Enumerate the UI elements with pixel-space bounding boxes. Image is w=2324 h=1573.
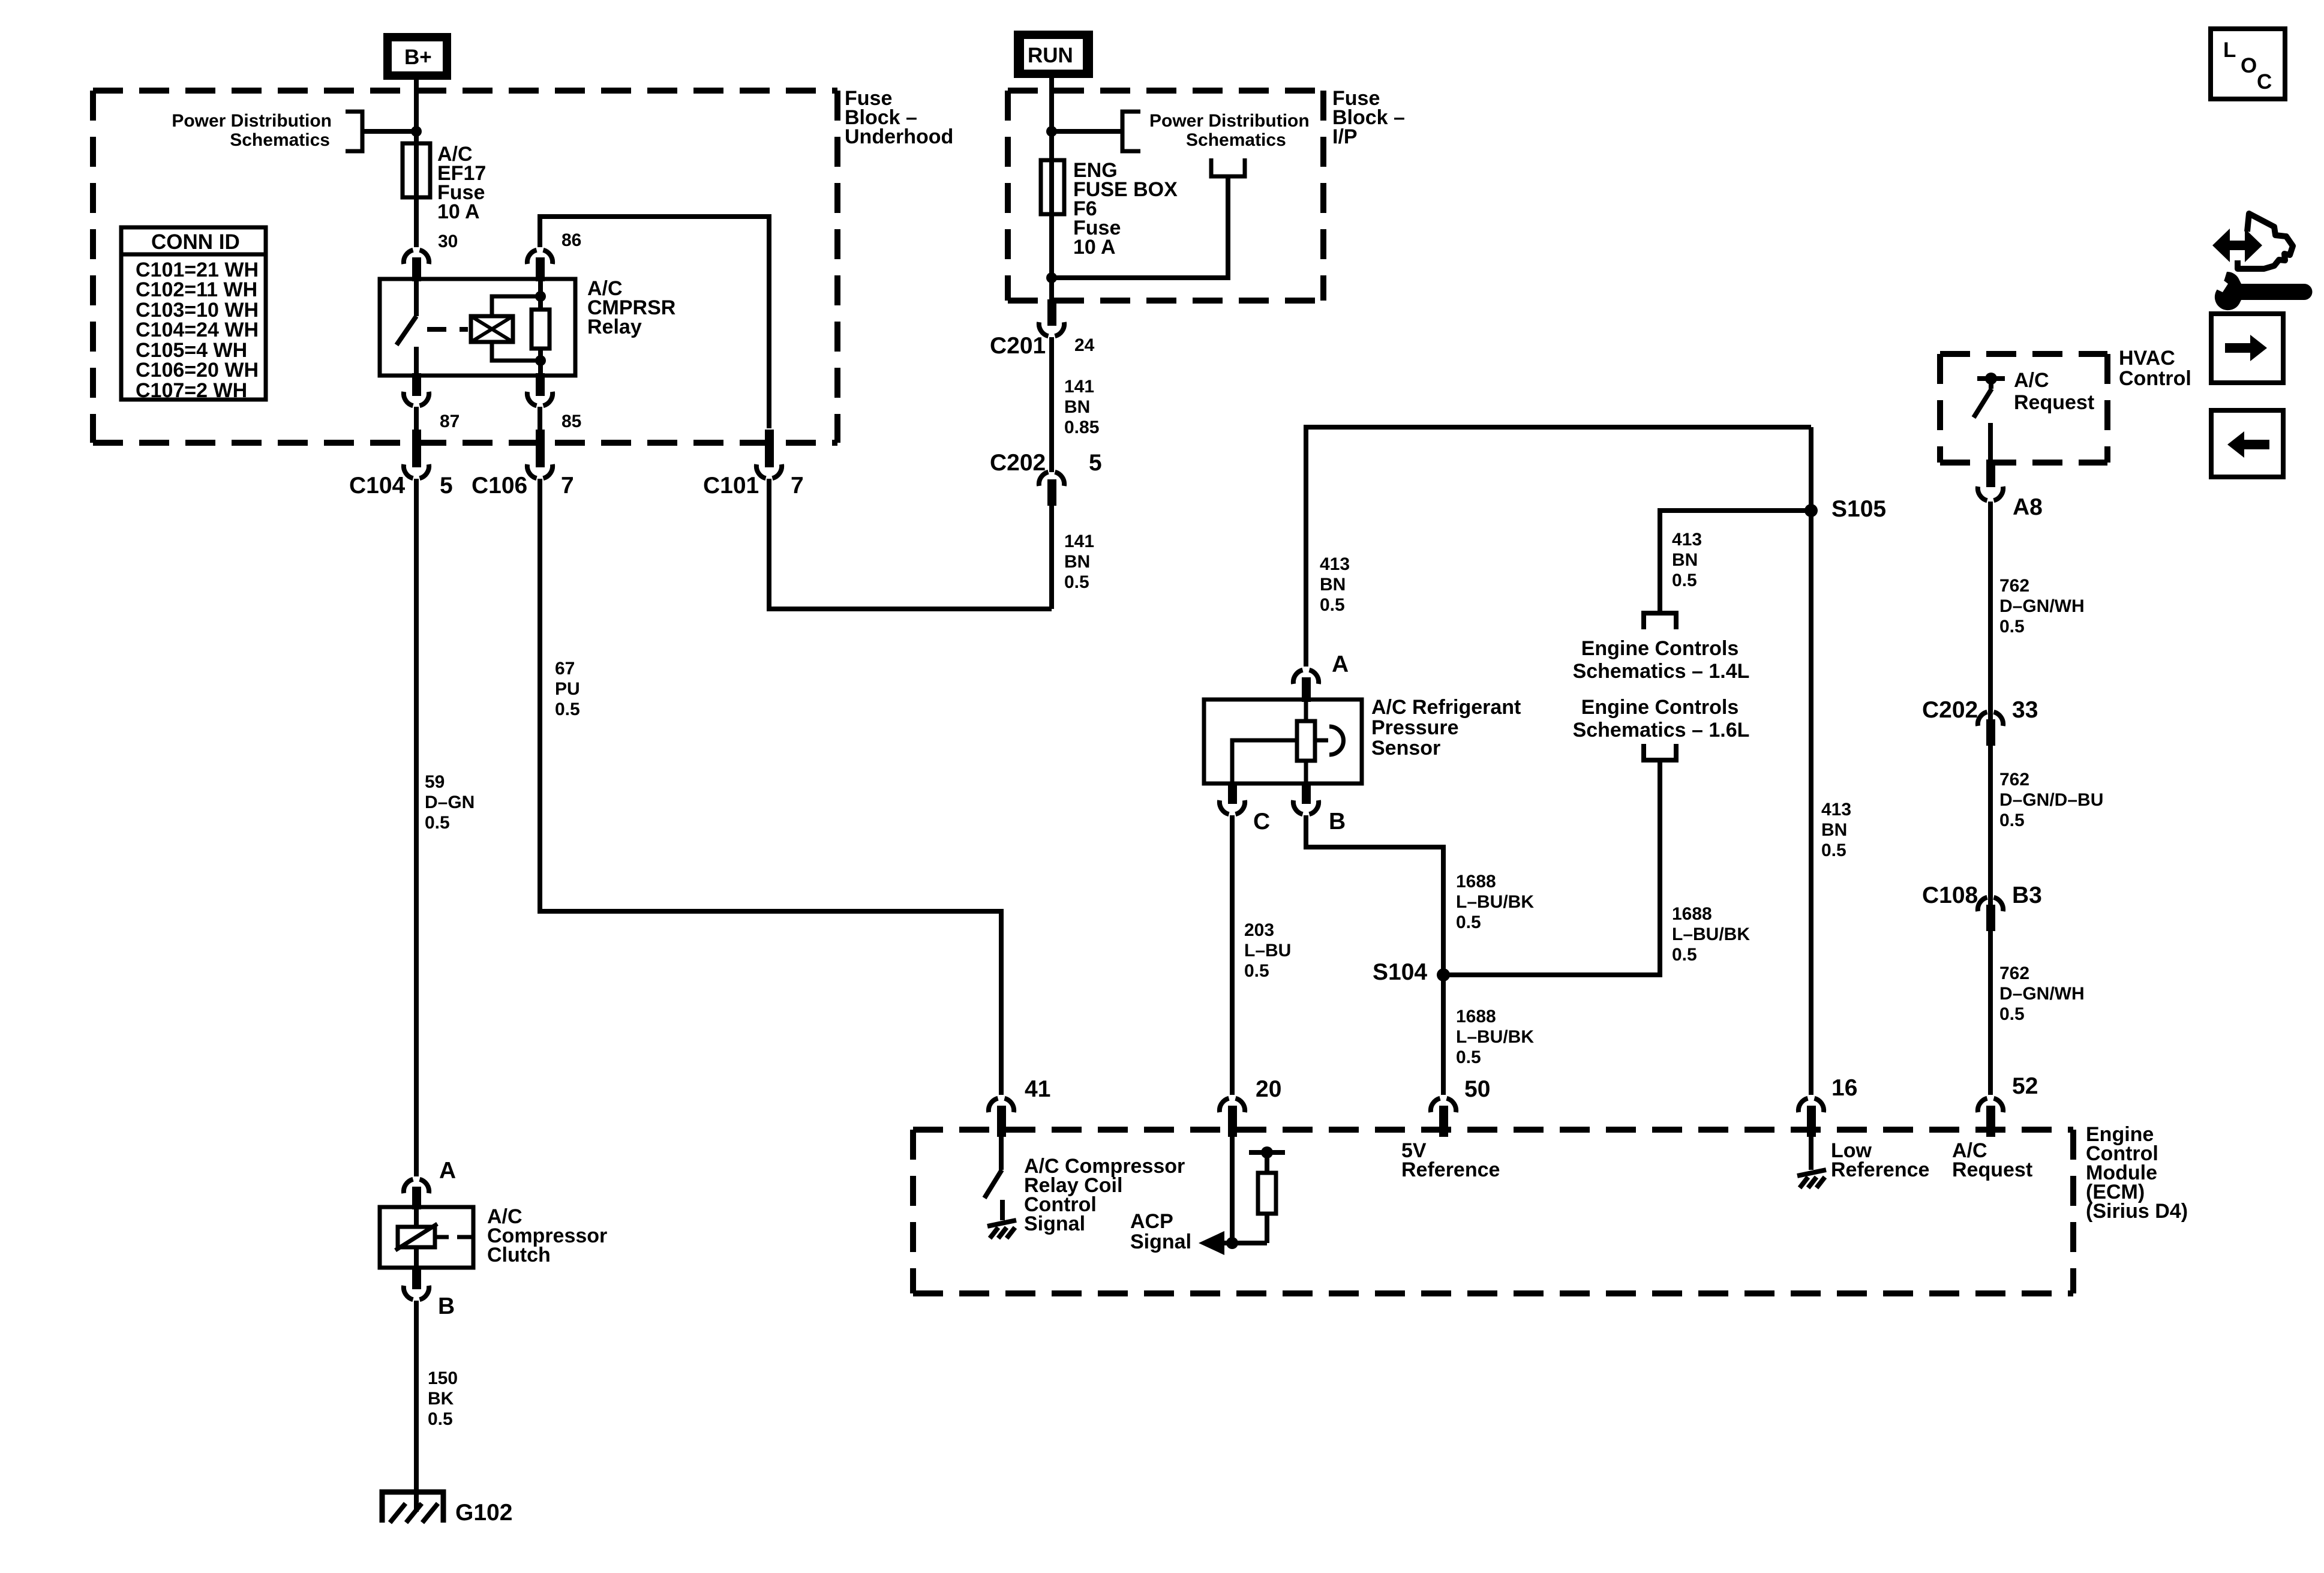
svg-text:D–GN/D–BU: D–GN/D–BU [1999,790,2103,810]
label wire 59 D-GN 0.5 [425,772,475,833]
wire 141 BN 0.5 [1049,506,1054,609]
svg-text:C: C [2257,70,2272,94]
svg-text:B: B [1329,809,1346,834]
connector sensor pin B [1293,782,1319,814]
svg-text:0.5: 0.5 [1456,1047,1481,1067]
wire 762 D-GN/WH 0.5 (C108 to ECM 52) [1988,931,1993,1095]
svg-text:0.5: 0.5 [1999,810,2025,830]
svg-text:10 A: 10 A [437,200,480,223]
relay suppression resistor [532,281,550,374]
svg-text:Signal: Signal [1024,1212,1085,1235]
connector pin 85 [527,373,553,406]
switch A/C compressor relay driver [984,1137,1002,1220]
bracket engine controls 1.6L [1644,744,1676,760]
sensor internal element [1232,700,1343,784]
svg-text:A/C: A/C [2014,369,2049,392]
A/C compressor clutch box [380,1207,473,1268]
label wire 141 BN 0.5 [1064,532,1094,592]
svg-text:1688: 1688 [1456,872,1496,891]
svg-text:0.5: 0.5 [555,700,580,719]
wire 141 BN 0.85 [1049,337,1054,472]
label power distribution schematics (underhood) [172,111,332,150]
svg-text:Schematics: Schematics [230,130,330,150]
label wire 413 BN 0.5 (sensor) [1320,554,1350,615]
svg-text:24: 24 [1074,335,1095,355]
svg-text:Schematics: Schematics [1186,130,1286,150]
svg-text:5: 5 [1089,450,1102,476]
connector pin 86 [527,250,553,281]
svg-text:141: 141 [1064,532,1094,551]
svg-text:I/P: I/P [1332,125,1358,148]
wire S104 branch to engine controls 1.6L [1443,763,1660,975]
svg-text:C106=20 WH: C106=20 WH [136,359,259,382]
svg-text:87: 87 [440,412,460,431]
svg-text:33: 33 [2012,697,2038,723]
svg-text:0.5: 0.5 [1672,571,1697,590]
label engine control module [2086,1123,2188,1223]
svg-text:CONN ID: CONN ID [151,230,240,254]
wire C101 down to junction with 141 [769,479,1052,609]
svg-text:Engine Controls: Engine Controls [1581,637,1739,660]
label power distribution schematics (I/P) [1149,111,1310,150]
connector clutch pin A [404,1179,429,1209]
svg-text:413: 413 [1320,554,1350,574]
svg-text:52: 52 [2012,1073,2038,1099]
wire 762 D-GN/WH 0.5 (A8 to C202) [1988,502,1993,719]
connector clutch pin B [404,1266,429,1299]
svg-text:B: B [438,1293,455,1319]
label A/C refrigerant pressure sensor [1371,696,1521,760]
label wire 762 D-GN/WH 0.5 (upper) [1999,576,2085,637]
connector HVAC pin A8 [1978,461,2003,500]
svg-text:C104=24 WH: C104=24 WH [136,319,259,341]
wire B+ to fuse EF17 [414,80,419,143]
connector C201 pin 24 [1039,299,1064,336]
svg-text:0.5: 0.5 [1244,961,1269,981]
fuse block I/P label [1332,87,1405,148]
svg-text:59: 59 [425,772,445,792]
svg-text:50: 50 [1464,1076,1490,1102]
label A/C CMPRSR relay [587,277,675,338]
svg-text:0.85: 0.85 [1064,418,1099,437]
connector pin 87 [404,373,429,406]
label fuse A/C EF17 [437,143,486,223]
connector C106 pin 7 [527,430,553,478]
svg-text:C202: C202 [990,450,1046,476]
svg-text:762: 762 [1999,576,2029,596]
label HVAC control [2119,347,2191,390]
svg-text:C: C [1253,809,1270,834]
relay coil mechanical link (dashed) [427,327,468,332]
svg-text:141: 141 [1064,377,1094,397]
label A/C request (ECM) [1952,1139,2032,1181]
wire tap to bracket [362,129,416,134]
svg-text:C201: C201 [990,333,1046,359]
wire 762 D-GN/D-BU 0.5 [1988,746,1993,905]
connector C104 pin 5 [404,430,429,478]
svg-text:B+: B+ [404,46,432,69]
clutch coil element [395,1207,473,1268]
arrow ACP signal [1199,1231,1267,1255]
svg-text:Engine Controls: Engine Controls [1581,696,1739,719]
connector ECM pin 52 [1978,1098,2003,1137]
svg-text:150: 150 [428,1368,458,1388]
svg-text:D–GN/WH: D–GN/WH [1999,984,2085,1004]
resistor ACP pull-up [1258,1152,1276,1243]
connector C202 pin 5 [1039,472,1064,506]
svg-text:O: O [2241,54,2257,77]
wire 1688 L-BU/BK 0.5 (B to S104) [1306,815,1443,1095]
fuse block underhood (dashed box) [93,91,837,443]
svg-text:RUN: RUN [1028,44,1073,67]
svg-text:L–BU/BK: L–BU/BK [1672,924,1750,944]
fuse ENG FUSE BOX F6 10A [1041,160,1064,214]
bracket power distribution schematics (I/P) [1122,112,1140,151]
svg-text:0.5: 0.5 [1821,840,1846,860]
svg-text:Reference: Reference [1831,1158,1929,1181]
connector ECM pin 20 [1220,1098,1245,1137]
svg-text:Request: Request [1952,1158,2032,1181]
label 5V reference [1401,1139,1500,1181]
ground A/C compressor relay control [987,1220,1016,1238]
svg-text:0.5: 0.5 [1456,912,1481,932]
svg-text:41: 41 [1025,1076,1050,1102]
svg-text:Pressure: Pressure [1371,716,1459,739]
connector ECM pin 41 [989,1098,1014,1137]
node coil/resistor top [535,291,546,302]
label A/C request (HVAC) [2014,369,2094,414]
wire pin 86 up and over to C101 [540,217,769,428]
wire 59 D-GN 0.5 (C104 to clutch) [414,479,419,1176]
svg-text:A8: A8 [2013,494,2043,520]
svg-text:7: 7 [791,473,804,499]
connector C202 pin 33 [1978,712,2003,746]
relay switch 30-87 [397,281,416,374]
connector sensor pin C [1220,782,1245,814]
label wire 1688 L-BU/BK 0.5 (branch) [1672,904,1750,965]
svg-text:Clutch: Clutch [487,1244,551,1266]
icon component view arrow [2212,214,2293,269]
svg-text:Schematics – 1.4L: Schematics – 1.4L [1573,660,1750,683]
CONN ID table [121,227,266,402]
splice S104 [1437,968,1450,981]
svg-text:20: 20 [1256,1076,1281,1102]
node fuse output [1046,272,1057,283]
svg-text:C202: C202 [1922,697,1978,723]
connector C108 pin B3 [1978,897,2003,931]
connector sensor pin A [1293,670,1319,702]
label wire 413 BN 0.5 (branch) [1672,530,1702,590]
svg-text:BN: BN [1064,397,1090,417]
svg-text:PU: PU [555,679,580,699]
relay coil box [471,316,513,342]
svg-text:L–BU: L–BU [1244,941,1291,960]
svg-text:0.5: 0.5 [1999,617,2025,637]
svg-text:BN: BN [1320,575,1346,595]
icon wrench [2211,272,2313,310]
svg-text:Power Distribution: Power Distribution [172,111,332,131]
svg-text:10 A: 10 A [1073,236,1116,259]
label wire 67 PU 0.5 [555,659,580,719]
wire RUN to fuse F6 [1049,78,1054,160]
label wire 762 D-GN/D-BU 0.5 [1999,770,2103,830]
A/C refrigerant pressure sensor box [1204,700,1362,784]
svg-text:ACP: ACP [1130,1210,1173,1233]
wire fuse to pin 30 [414,197,419,247]
svg-text:16: 16 [1831,1075,1857,1101]
label wire 413 BN 0.5 (low reference) [1821,800,1851,860]
svg-text:C104: C104 [349,473,406,499]
bracket power distribution schematics (underhood) [346,112,362,151]
svg-text:0.5: 0.5 [425,813,450,833]
svg-text:0.5: 0.5 [1064,572,1089,592]
label ACP signal [1130,1210,1191,1253]
svg-text:7: 7 [561,473,574,499]
svg-text:413: 413 [1821,800,1851,819]
wire 203 L-BU 0.5 (C to ECM 20) [1230,815,1235,1095]
wire bracket down to fuse output [1052,176,1228,278]
svg-text:Relay: Relay [587,316,642,338]
battery feed B+ [383,33,451,80]
bracket engine controls 1.4L [1644,613,1676,629]
icon arrow right box [2211,314,2283,383]
connector ECM pin 16 [1798,1098,1824,1137]
svg-text:BN: BN [1064,552,1090,572]
svg-text:Underhood: Underhood [845,125,953,148]
label wire 150 BK 0.5 [428,1368,458,1429]
svg-text:Schematics – 1.6L: Schematics – 1.6L [1573,719,1750,742]
svg-text:5: 5 [440,473,453,499]
wire coil to resistor top [492,296,541,316]
svg-text:C107=2 WH: C107=2 WH [136,379,247,402]
bracket to engine fuse box return [1211,158,1245,176]
HVAC control (dashed box) [1940,354,2107,463]
svg-text:S105: S105 [1831,496,1886,522]
svg-text:A: A [1332,652,1349,677]
svg-text:0.5: 0.5 [428,1409,453,1429]
icon LOC box [2211,29,2285,99]
svg-text:G102: G102 [455,1500,512,1526]
icon arrow left box [2211,410,2283,477]
connector pin 30 [404,250,429,281]
svg-text:S104: S104 [1373,959,1427,985]
relay A/C CMPRSR box [380,279,575,376]
wire 150 BK 0.5 [414,1301,419,1512]
ground low reference [1797,1137,1826,1188]
label A/C compressor clutch [487,1205,607,1266]
svg-text:D–GN/WH: D–GN/WH [1999,596,2085,616]
svg-text:BN: BN [1672,550,1698,570]
connector ECM pin 50 [1431,1098,1456,1137]
wire 413 BN 0.5 (S105 to ECM 16) [1809,427,1813,1095]
svg-text:B3: B3 [2012,882,2042,908]
svg-text:0.5: 0.5 [1672,945,1697,965]
svg-text:762: 762 [1999,770,2029,789]
svg-text:Reference: Reference [1401,1158,1500,1181]
svg-text:Control: Control [2119,367,2191,390]
wire S105 branch to engine controls 1.4L [1660,511,1811,613]
label engine controls schematics 1.6L [1573,696,1750,742]
fuse A/C EF17 10A [403,143,430,197]
label wire 203 L-BU 0.5 [1244,920,1291,981]
svg-text:C108: C108 [1922,882,1978,908]
node ACP reference rail [1249,1146,1285,1158]
svg-text:L: L [2223,38,2236,62]
label A/C compressor relay coil control signal [1024,1155,1185,1235]
fuse block underhood label [845,87,953,148]
wire 67 PU 0.5 (C106 to ECM 41) [540,479,1001,1095]
node coil/resistor bottom [535,355,546,366]
wire pin 20 to ACP node [1230,1137,1235,1243]
svg-text:203: 203 [1244,920,1274,940]
svg-text:Request: Request [2014,391,2094,414]
ground G102 [382,1492,443,1523]
label wire 762 D-GN/WH 0.5 (lower) [1999,963,2085,1024]
svg-text:762: 762 [1999,963,2029,983]
wire fuse to C201 [1049,214,1054,299]
wire 85 to C106 [538,407,542,431]
svg-text:0.5: 0.5 [1999,1004,2025,1024]
svg-text:85: 85 [562,412,581,431]
engine control module ECM (dashed box) [913,1130,2073,1293]
svg-text:C106: C106 [472,473,527,499]
svg-text:Signal: Signal [1130,1230,1191,1253]
splice S105 [1804,504,1818,517]
wire 413 BN 0.5 (sensor A feed) [1306,427,1811,667]
label fuse F6 [1073,159,1178,259]
svg-text:D–GN: D–GN [425,792,475,812]
switch A/C request [1974,373,2005,463]
svg-text:Sensor: Sensor [1371,737,1440,760]
svg-text:30: 30 [438,232,458,251]
svg-text:0.5: 0.5 [1320,595,1345,615]
svg-text:(Sirius D4): (Sirius D4) [2086,1200,2188,1223]
svg-text:413: 413 [1672,530,1702,550]
node power distribution tap (I/P) [1046,126,1057,137]
svg-text:L–BU/BK: L–BU/BK [1456,1027,1534,1047]
svg-text:A: A [439,1158,456,1184]
wire 87 to C104 [414,407,419,431]
svg-text:L–BU/BK: L–BU/BK [1456,892,1534,912]
svg-text:1688: 1688 [1672,904,1712,924]
svg-text:1688: 1688 [1456,1007,1496,1026]
ignition feed RUN [1014,31,1093,78]
svg-text:86: 86 [562,230,581,250]
label engine controls schematics 1.4L [1573,637,1750,683]
label wire 1688 L-BU/BK 0.5 (lower) [1456,1007,1534,1067]
svg-text:BN: BN [1821,820,1847,840]
node power distribution tap [411,126,422,137]
fuse block I/P (dashed box) [1008,91,1323,301]
svg-text:Power Distribution: Power Distribution [1149,111,1310,131]
label low reference [1831,1139,1929,1181]
svg-text:C101: C101 [703,473,759,499]
wire coil to resistor bottom [492,342,541,361]
wire tap to bracket (I/P) [1052,129,1122,134]
connector C101 pin 7 [756,430,782,478]
svg-text:BK: BK [428,1389,454,1409]
label wire 1688 L-BU/BK 0.5 (upper) [1456,872,1534,932]
svg-text:HVAC: HVAC [2119,347,2175,370]
label wire 141 BN 0.85 [1064,377,1099,437]
svg-text:A/C Refrigerant: A/C Refrigerant [1371,696,1521,719]
node ACP signal [1226,1237,1238,1249]
svg-text:67: 67 [555,659,575,679]
svg-text:C102=11 WH: C102=11 WH [136,278,257,301]
